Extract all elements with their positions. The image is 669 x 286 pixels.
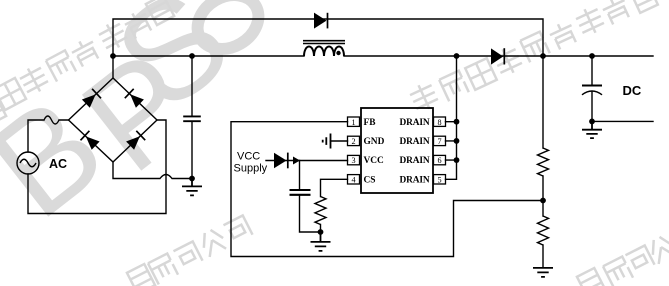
svg-text:DRAIN: DRAIN	[400, 156, 430, 166]
svg-text:DRAIN: DRAIN	[400, 118, 430, 128]
svg-text:FB: FB	[364, 118, 376, 128]
svg-text:2: 2	[351, 137, 355, 146]
svg-text:5: 5	[437, 175, 441, 184]
svg-text:DC: DC	[623, 83, 642, 98]
svg-text:Supply: Supply	[234, 163, 268, 175]
svg-text:4: 4	[351, 175, 355, 184]
svg-text:3: 3	[351, 156, 355, 165]
svg-text:CS: CS	[364, 175, 376, 185]
svg-text:8: 8	[437, 118, 441, 127]
svg-text:GND: GND	[364, 137, 385, 147]
svg-text:AC: AC	[49, 157, 67, 171]
svg-text:DRAIN: DRAIN	[400, 175, 430, 185]
svg-text:6: 6	[437, 156, 441, 165]
svg-text:VCC: VCC	[364, 156, 385, 166]
svg-text:7: 7	[437, 137, 441, 146]
svg-text:VCC: VCC	[237, 151, 260, 163]
svg-text:DRAIN: DRAIN	[400, 137, 430, 147]
svg-text:1: 1	[351, 118, 355, 127]
